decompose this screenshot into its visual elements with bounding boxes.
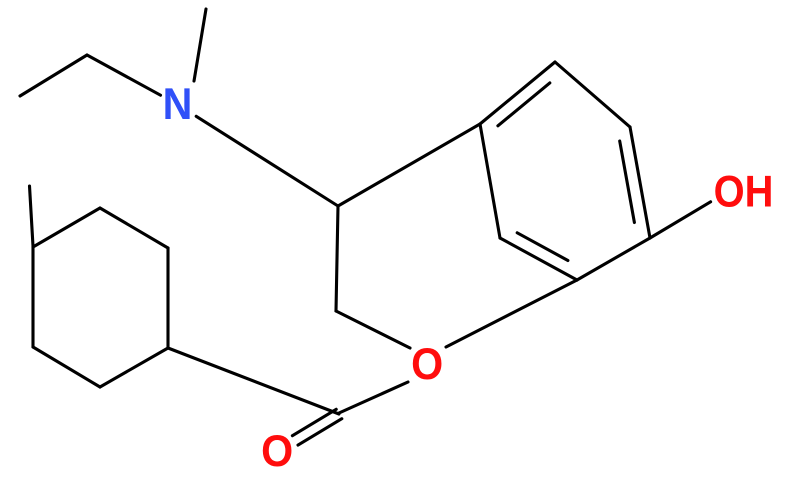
wire benzene edge BR-B <box>577 238 650 280</box>
wire cyclohexane edge H6-H5 <box>100 208 168 248</box>
wire benzene edge TR-BR <box>630 127 650 238</box>
wire cyclohexane edge H1-H6 <box>33 208 100 247</box>
wire benzene edge B-BL <box>500 238 577 280</box>
wire N-CH2 ethyl <box>87 55 161 95</box>
wire benzene inner double B-BL <box>517 233 568 261</box>
svg-text:O: O <box>411 340 443 390</box>
wire O-C carbonyl <box>339 382 408 413</box>
wire V2-CH2 vertical <box>336 206 338 311</box>
wire benzene edge BL-TL <box>480 124 500 238</box>
wire benzene edge TL-T <box>480 62 555 124</box>
wire cyclohexane edge H2-H1 <box>31 247 34 347</box>
wire V2-phenol ipso <box>338 124 480 206</box>
wire benzene inner double TR-BR <box>620 141 635 223</box>
wire C2-cyclohexane <box>168 348 339 414</box>
wire cyclohexane edge H3-H2 <box>33 347 100 387</box>
wire N-C chain to V2 <box>196 116 338 206</box>
wire phenol C-OH <box>650 202 711 238</box>
wire cyclohexane edge H4-H3 <box>100 348 168 387</box>
wire benzene edge T-TR <box>555 62 630 127</box>
wire C=O double line 1 <box>292 409 336 435</box>
svg-text:N: N <box>163 80 193 130</box>
wire CH2-O ester <box>336 311 410 348</box>
wire cyclohexane edge H5-H4 <box>166 248 169 348</box>
wire cyclohexane methyl stub <box>30 186 34 246</box>
wire O-aryl long <box>446 280 577 347</box>
wire N-CH3 methyl <box>194 9 206 81</box>
svg-text:O: O <box>261 426 293 476</box>
wire CH2-CH3 ethyl <box>20 55 87 96</box>
svg-text:OH: OH <box>714 166 774 216</box>
wire benzene inner double TL-T <box>498 83 550 126</box>
wire C=O double line 2 <box>298 419 342 445</box>
